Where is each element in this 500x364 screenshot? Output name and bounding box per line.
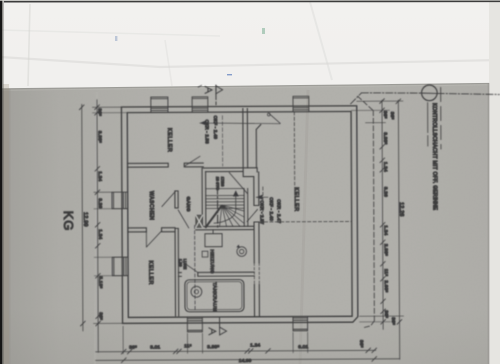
right backing strip <box>489 0 500 364</box>
dashed channel near luke <box>262 187 264 222</box>
window B2 bottom wall <box>293 317 308 331</box>
svg-text:TANKRAUM: TANKRAUM <box>212 282 218 312</box>
svg-text:18 STG: 18 STG <box>215 177 220 190</box>
svg-text:OKF - 2.49: OKF - 2.49 <box>213 116 218 140</box>
treads <box>206 195 244 208</box>
big keller door leaf at corridor <box>229 173 247 194</box>
door leaf gang to heiz corridor <box>178 210 189 228</box>
svg-text:3.26: 3.26 <box>97 198 103 208</box>
svg-text:OKR - 2.53: OKR - 2.53 <box>204 120 209 144</box>
svg-text:KG: KG <box>61 211 76 231</box>
left wall extension lines <box>92 107 128 323</box>
svg-text:14.99: 14.99 <box>239 358 252 364</box>
svg-text:12.99: 12.99 <box>82 212 88 227</box>
dashed sewer channel outside right wall <box>358 96 375 328</box>
svg-text:3.01: 3.01 <box>150 344 160 350</box>
svg-text:3.38⁵: 3.38⁵ <box>382 132 388 144</box>
interior wall: tankraum north wall W7 <box>179 272 255 276</box>
svg-text:KELLER: KELLER <box>166 128 172 153</box>
svg-text:36⁵: 36⁵ <box>97 108 103 116</box>
heizung boiler <box>205 230 222 247</box>
svg-text:3.88⁵: 3.88⁵ <box>207 344 219 350</box>
svg-text:OKR - 2.47: OKR - 2.47 <box>277 199 282 223</box>
svg-text:OKF - 2.40: OKF - 2.40 <box>269 197 274 221</box>
left paper edge warm tint <box>3 84 9 364</box>
svg-text:3.38⁵: 3.38⁵ <box>97 131 103 143</box>
svg-text:5.13⁵: 5.13⁵ <box>98 276 104 288</box>
interior wall: waschen south wall W6 <box>128 228 175 232</box>
svg-text:36⁵: 36⁵ <box>129 345 137 351</box>
window T2 <box>192 97 208 112</box>
svg-text:1.24: 1.24 <box>97 229 103 239</box>
svg-text:KONTROLLSCHACHT MIT OFF. GER: KONTROLLSCHACHT MIT OFF. GERINNE <box>431 103 438 211</box>
winder treads <box>219 205 244 226</box>
svg-text:36⁵: 36⁵ <box>358 340 364 348</box>
stair stringer diagonal <box>206 206 222 227</box>
dashed channel big keller horizontal <box>259 220 352 222</box>
interior wall: top keller bottom wall W4 <box>128 163 204 167</box>
door leaf waschen (upper W2 opening) <box>162 191 176 207</box>
chimney double circle <box>237 247 247 257</box>
svg-text:36⁵: 36⁵ <box>383 310 389 318</box>
left chain ticks <box>95 105 101 326</box>
kontrollschacht circle symbol <box>422 85 438 101</box>
svg-text:2.38⁵: 2.38⁵ <box>383 244 389 256</box>
svg-text:KELLER: KELLER <box>293 187 299 212</box>
stair east wall <box>244 189 248 227</box>
window T3 <box>293 96 309 111</box>
svg-text:GANG: GANG <box>186 197 191 212</box>
level labels top keller <box>200 123 280 124</box>
svg-text:1.24: 1.24 <box>250 342 260 348</box>
big keller door leaf with knob <box>269 113 280 123</box>
vertical dashed line right of label <box>440 88 442 149</box>
interior wall: top keller east wall W1 <box>243 109 248 168</box>
svg-text:36⁵: 36⁵ <box>382 111 388 119</box>
inner wall boundary <box>127 111 352 317</box>
svg-text:6.01: 6.01 <box>298 344 308 350</box>
windows top wall <box>111 96 310 332</box>
tank hatch door leaf <box>182 261 198 272</box>
door leaf top keller door <box>184 156 200 166</box>
gray drawing paper <box>2 83 490 364</box>
window B1 bottom wall <box>187 317 202 332</box>
door leaf bottom keller <box>146 231 161 247</box>
section marker A bottom: triangle <box>220 327 227 335</box>
svg-text:3.26: 3.26 <box>382 187 388 197</box>
interior wall: gang south wall W6b <box>196 226 254 230</box>
svg-text:11⁵: 11⁵ <box>383 269 389 277</box>
interior wall: big keller west wall W3 (with Luke gap) <box>254 172 260 317</box>
level labels big keller <box>256 195 262 200</box>
window T1 <box>151 97 168 112</box>
dashed drain channel: heizung vertical <box>194 225 196 311</box>
section marker A top: triangle <box>216 86 223 94</box>
bottom segment chain line <box>96 350 376 351</box>
svg-text:1.24: 1.24 <box>97 171 103 181</box>
svg-text:36⁵: 36⁵ <box>390 317 396 325</box>
left chain labels <box>81 107 404 364</box>
svg-text:36⁵: 36⁵ <box>98 312 104 320</box>
Luke door leaf near stairs <box>247 209 258 221</box>
walk line with arrow <box>214 196 236 224</box>
right extension lines <box>351 101 404 322</box>
svg-text:11⁵: 11⁵ <box>184 343 192 349</box>
svg-text:12.26: 12.26 <box>398 202 404 216</box>
stair top edge <box>206 188 244 190</box>
section line A-A top stub <box>215 85 217 104</box>
small color specks <box>227 74 232 75</box>
kontrollschacht axis dash-dot line <box>351 92 500 104</box>
svg-text:LUKE: LUKE <box>183 259 188 270</box>
paper grain <box>0 0 1 1</box>
window L1 left wall <box>112 192 128 209</box>
left overall chain line 12.99 <box>82 104 83 330</box>
right segment chain line <box>382 100 383 329</box>
duct box with X <box>196 215 203 227</box>
stair west wall W5 <box>202 168 206 227</box>
section line through stairs <box>216 186 218 228</box>
creases on white sheet <box>0 57 500 67</box>
svg-text:36⁵: 36⁵ <box>389 112 395 120</box>
oil tank rounded rect <box>185 280 244 312</box>
section marker A bottom: letter <box>209 328 216 335</box>
svg-text:1.90: 1.90 <box>178 259 183 268</box>
Luke hatch dashes in W3 <box>254 263 259 285</box>
svg-text:KELLER: KELLER <box>147 261 153 286</box>
bottom overall chain line 14.99 <box>96 359 400 361</box>
big keller west inner face above jog <box>256 125 261 168</box>
paper shading <box>2 89 11 364</box>
outer wall boundary <box>121 106 357 324</box>
kontrollschacht text underline bar <box>427 103 429 146</box>
wall segment W4b toward jog <box>203 168 243 172</box>
interior wall: waschen/gang wall W2 <box>175 191 179 316</box>
right overall chain line 12.26 <box>398 100 399 359</box>
svg-text:2.63⁵: 2.63⁵ <box>383 280 389 292</box>
heizung small box <box>202 251 208 257</box>
left segment chain line <box>97 100 98 352</box>
svg-text:1.24: 1.24 <box>382 162 388 172</box>
svg-text:17/28: 17/28 <box>220 177 225 187</box>
stairs <box>206 189 248 228</box>
svg-text:OKR - 2.57: OKR - 2.57 <box>260 200 265 224</box>
svg-text:HEIZUNG: HEIZUNG <box>209 249 215 273</box>
dashed channel big keller vertical mid <box>293 112 295 195</box>
bottom chain ticks <box>121 348 376 354</box>
wall jog band between W1 and W3 <box>243 168 257 177</box>
svg-text:1.24: 1.24 <box>382 225 388 235</box>
section line A-A bottom stub <box>219 318 221 328</box>
scanner edges <box>0 0 2 364</box>
window L2 left wall <box>112 257 128 276</box>
svg-text:WASCHEN: WASCHEN <box>148 191 154 220</box>
tank circle fitting <box>191 286 202 297</box>
section marker A top: letter <box>205 86 212 93</box>
bottom extension lines <box>123 325 308 353</box>
small tick near top marker <box>198 85 201 87</box>
right chain ticks <box>380 99 386 324</box>
